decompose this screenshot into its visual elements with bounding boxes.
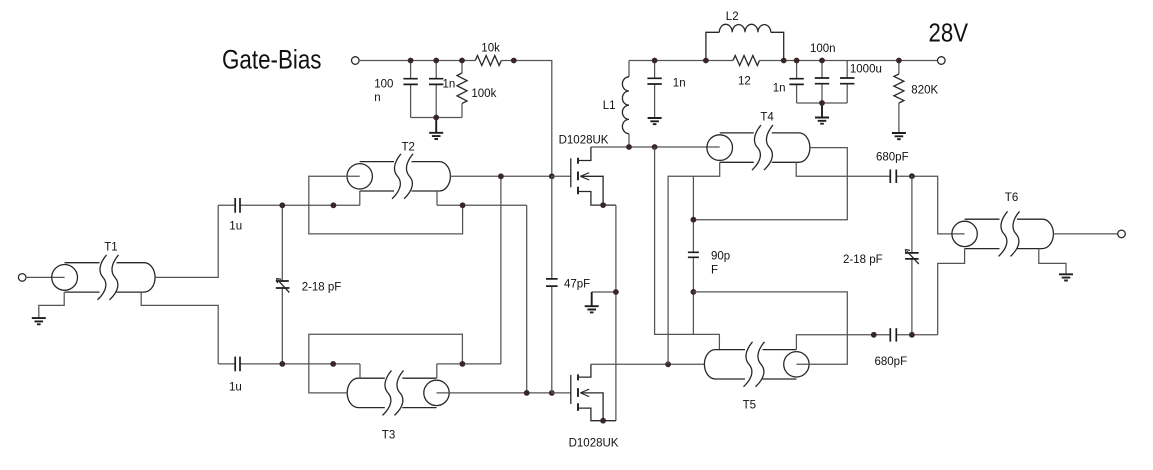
wire T4 bottom-right lead xyxy=(796,162,890,176)
transformer T2 xyxy=(347,154,450,199)
capacitor 47pF xyxy=(546,176,558,393)
capacitor 1u bottom xyxy=(218,357,282,372)
wire T1 bottom-left lead to ground xyxy=(39,292,64,318)
junction 90pF dots xyxy=(691,217,697,223)
wire T6 bottom-left lead xyxy=(938,249,965,335)
junction source lower dot xyxy=(600,418,606,424)
wire top row to T2 xyxy=(282,204,360,206)
svg-text:1n: 1n xyxy=(773,82,786,94)
svg-text:820K: 820K xyxy=(911,84,938,96)
svg-text:12: 12 xyxy=(738,75,751,87)
capacitor 100n bias xyxy=(403,61,417,118)
svg-text:2-18 pF: 2-18 pF xyxy=(843,254,883,266)
wire source ground stub xyxy=(592,291,616,293)
wire input to T1 xyxy=(26,276,65,278)
wire T3 output xyxy=(437,392,552,394)
wire T5 top-right lead to 680pF lower rail xyxy=(796,335,937,350)
wire T2 output xyxy=(450,175,551,177)
svg-text:D1028UK: D1028UK xyxy=(569,437,619,449)
resistor 10k xyxy=(475,56,501,66)
svg-text:680pF: 680pF xyxy=(875,356,908,368)
svg-text:1u: 1u xyxy=(229,221,242,233)
svg-text:T4: T4 xyxy=(760,112,774,124)
wire lower drain line xyxy=(591,363,705,365)
svg-text:10k: 10k xyxy=(481,43,500,55)
svg-text:1n: 1n xyxy=(673,78,686,90)
svg-text:T1: T1 xyxy=(104,241,117,253)
MOSFET Q2 D1028UK lower xyxy=(552,364,616,420)
junction supply dots xyxy=(652,58,658,64)
junction 680pF lower dots xyxy=(871,332,877,338)
svg-text:47pF: 47pF xyxy=(564,278,590,290)
variable capacitor 2-18pF output xyxy=(905,176,919,335)
junction 680pF upper dot xyxy=(909,173,915,179)
svg-text:L1: L1 xyxy=(603,100,616,112)
junction source mid dot xyxy=(613,289,619,295)
junction source upper dot xyxy=(600,202,606,208)
inductor L1 xyxy=(622,61,629,148)
wire top node to T5 cross-coupling xyxy=(655,147,720,350)
junction lower drain dot xyxy=(665,361,671,367)
capacitor 680pF lower xyxy=(890,328,896,342)
svg-text:T2: T2 xyxy=(402,142,415,154)
ground 820K xyxy=(892,133,906,139)
wire T6 output xyxy=(1053,233,1118,235)
svg-text:100k: 100k xyxy=(471,88,496,100)
wire T4 bottom-left lead cross-coupling xyxy=(668,162,720,364)
transformer T5 xyxy=(704,342,809,387)
capacitor 680pF upper xyxy=(890,170,896,184)
wire bias bottom rail xyxy=(411,117,462,119)
capacitor 1n under L1 line xyxy=(647,61,661,119)
ground supply caps xyxy=(815,103,829,124)
ground T6 xyxy=(1059,274,1073,280)
resistor 820K xyxy=(894,61,904,134)
svg-text:100n: 100n xyxy=(810,43,836,55)
svg-text:1000u: 1000u xyxy=(850,64,882,76)
wire 28V main rail xyxy=(629,60,938,62)
inductor L2 loop xyxy=(706,24,784,60)
junction T2 area dots xyxy=(279,202,285,208)
wire 680pF upper rail xyxy=(896,176,964,234)
wire T6 bottom-right lead to ground xyxy=(1039,249,1066,275)
capacitor 100n supply xyxy=(815,61,829,104)
transformer T1 xyxy=(52,255,155,300)
svg-text:680pF: 680pF xyxy=(876,152,909,164)
svg-text:D1028UK: D1028UK xyxy=(559,134,609,146)
svg-text:Gate-Bias: Gate-Bias xyxy=(222,45,322,75)
svg-text:T3: T3 xyxy=(382,429,395,441)
svg-text:n: n xyxy=(374,92,380,104)
svg-text:100: 100 xyxy=(374,79,393,91)
resistor 100k xyxy=(457,61,467,118)
ground sources xyxy=(585,292,599,312)
wire bottom row to T3 xyxy=(282,363,360,365)
transformer T3 xyxy=(347,370,449,415)
MOSFET Q1 D1028UK upper xyxy=(552,147,616,205)
svg-text:28V: 28V xyxy=(929,18,969,48)
wire T3 top-right lead rail xyxy=(437,364,501,378)
terminal RF input xyxy=(18,274,26,282)
junction T3 area dots xyxy=(279,361,285,367)
ground 1n under L2 xyxy=(648,118,662,124)
wire T2 bottom-right lead rail xyxy=(437,191,527,393)
wire T1 output up xyxy=(155,205,218,277)
wire sources vertical xyxy=(615,205,617,421)
svg-text:T5: T5 xyxy=(743,400,756,412)
junction bias dots xyxy=(408,58,414,64)
junction drain line dots xyxy=(626,144,632,150)
svg-text:2-18 pF: 2-18 pF xyxy=(302,282,342,294)
terminal 28V xyxy=(938,57,946,65)
terminal gate-bias input xyxy=(352,57,360,65)
ground bias xyxy=(429,118,443,140)
capacitor 1n supply xyxy=(789,61,803,104)
svg-text:L2: L2 xyxy=(726,11,739,23)
capacitor 1n bias xyxy=(429,61,443,118)
svg-text:T6: T6 xyxy=(1005,192,1018,204)
wire upper drain line xyxy=(591,146,720,148)
wire T1 bottom-right lead xyxy=(141,292,218,364)
transformer T6 xyxy=(952,211,1054,256)
capacitor 1u top xyxy=(218,198,282,213)
capacitor 1000u xyxy=(840,61,854,104)
wire T2 left loop xyxy=(309,176,463,234)
wire supply caps bottom rail xyxy=(797,102,848,104)
svg-text:1n: 1n xyxy=(443,79,456,91)
svg-text:90p: 90p xyxy=(711,251,730,263)
wire T5 output loop to 90pF bottom xyxy=(693,292,847,364)
wire T2 bottom-left lead xyxy=(359,191,361,205)
wire bias input to 10k xyxy=(359,60,475,62)
svg-text:F: F xyxy=(711,264,718,276)
variable capacitor 2-18pF input xyxy=(276,205,290,364)
wire 10k to corner, down to gate node xyxy=(501,61,552,177)
transformer T4 xyxy=(707,125,810,170)
capacitor 90pF xyxy=(688,176,699,334)
resistor 12 xyxy=(733,56,760,66)
wire T3 left loop xyxy=(309,334,463,393)
ground T1 xyxy=(32,318,46,324)
wire T3 top-left lead xyxy=(359,364,361,378)
terminal RF output xyxy=(1118,230,1126,238)
svg-text:1u: 1u xyxy=(229,381,242,393)
wire T4 output loop to 90pF xyxy=(693,148,847,220)
wire T2 output cross-coupling down xyxy=(500,176,502,364)
